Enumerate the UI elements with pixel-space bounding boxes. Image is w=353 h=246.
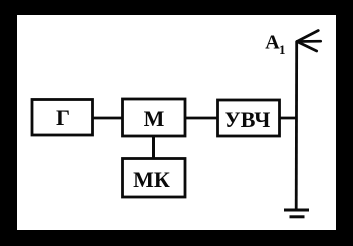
wire Г–М (92, 117, 123, 120)
wire М–МК (152, 136, 155, 159)
svg-text:1: 1 (279, 42, 286, 57)
svg-text:УВЧ: УВЧ (225, 107, 271, 132)
label A1 (265, 32, 285, 58)
block МК (microphone) (123, 159, 186, 198)
svg-text:Г: Г (56, 105, 70, 130)
svg-text:М: М (144, 106, 165, 131)
ground (284, 210, 309, 217)
block Г (generator) (32, 100, 93, 136)
white paper area (17, 15, 336, 230)
svg-text:МК: МК (133, 167, 170, 192)
block УВЧ (RF amplifier) (218, 100, 280, 136)
antenna lead (vertical wire) (295, 41, 298, 211)
antenna symbol (three prongs) (297, 31, 321, 52)
wire М–УВЧ (185, 117, 218, 120)
block М (modulator) (123, 99, 186, 136)
wire УВЧ–antenna lead (279, 117, 297, 120)
